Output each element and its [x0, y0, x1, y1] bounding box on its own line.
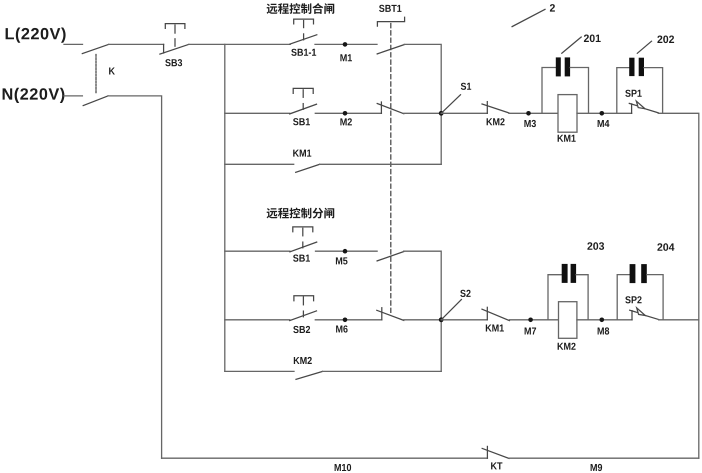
- node M8 junction dot: [600, 318, 605, 323]
- pushbutton SB3 terminal tick: [163, 44, 165, 53]
- label 204: [657, 243, 674, 251]
- contact KT label: [491, 462, 502, 469]
- pushbutton SB1 blade (row2): [290, 104, 317, 114]
- figure number 2 leader line: [512, 9, 545, 26]
- contact KM2 label: [487, 118, 505, 125]
- pressure switch SP2 label: [625, 296, 641, 303]
- pressure switch SP2 terminal tick: [631, 311, 633, 320]
- figure number 2 label: [550, 4, 555, 12]
- pushbutton SB3 actuator dashes: [174, 25, 176, 33]
- contact KM1 NC tick (row5): [486, 307, 488, 320]
- switch K pole 2 blade: [83, 96, 108, 106]
- node M6 label: [336, 325, 348, 332]
- pushbutton SB1 label (row2): [293, 118, 310, 125]
- pressure switch SP2 blade: [645, 316, 658, 320]
- capacitor 203 plates: [562, 264, 576, 283]
- node S1 leader line: [441, 95, 460, 114]
- test button SBT1 contact row2 tick: [380, 102, 382, 113]
- test button SBT1 mechanical dashed line: [390, 24, 392, 314]
- pushbutton SB2 blade: [290, 311, 317, 321]
- pushbutton SB1 blade (row4): [290, 242, 317, 252]
- pressure switch SP1 cross bar: [629, 103, 637, 105]
- node M2 label: [340, 118, 352, 125]
- wire bottom rail left: [162, 457, 488, 459]
- pressure switch SP1 label: [625, 90, 641, 97]
- coil KM1 label: [558, 135, 576, 142]
- contact KM2 NO blade (row6): [296, 371, 323, 379]
- pushbutton SB3 blade: [160, 44, 189, 54]
- capacitor 201 branch left riser: [542, 68, 556, 114]
- node M1 junction dot: [343, 42, 348, 47]
- test button SBT1 label: [379, 5, 401, 12]
- wire N stub: [64, 95, 82, 97]
- wire row2 junction to KM2 contact: [441, 112, 487, 114]
- contact KM2 label (row6): [294, 357, 312, 364]
- wire row5 SP2 to right bus: [659, 319, 699, 321]
- wire row5 KM1 to coil branch: [510, 319, 559, 321]
- node M7 label: [525, 328, 537, 335]
- wire row1 to right bus corner: [404, 44, 441, 164]
- wire row5 SB2 to SBT1 NC contact: [315, 319, 382, 321]
- title text 远程控制合闸 (remote close): [267, 3, 335, 14]
- wire N row to bottom-left drop: [108, 96, 162, 458]
- node M9 label: [591, 464, 603, 471]
- test button SBT1 contact row5 blade: [377, 310, 404, 320]
- pressure switch SP2 wire stub: [617, 319, 632, 321]
- wire row4 SB1 to SBT1 contact: [316, 250, 378, 252]
- capacitor 202 plates: [629, 58, 644, 76]
- switch K pole 1 blade: [82, 44, 108, 53]
- pushbutton SB2 actuator dashes: [302, 297, 304, 305]
- label 202 leader line: [637, 41, 651, 53]
- contact KM2 NC blade: [482, 104, 509, 113]
- capacitor 204 branch right riser: [647, 275, 663, 320]
- wire row5 to S2 junction: [404, 319, 441, 321]
- pushbutton SB1-1 label: [291, 49, 316, 56]
- node M1 label: [340, 54, 352, 61]
- node N(220V) label: [3, 88, 65, 103]
- node S2 leader line: [441, 300, 461, 320]
- wire row6 bus to KM2 contact: [225, 370, 294, 372]
- node M7 junction dot: [528, 318, 533, 323]
- node M3 junction dot: [526, 111, 531, 116]
- capacitor 201 branch right riser: [570, 68, 588, 114]
- contact KM1 NC blade (row5): [482, 309, 510, 320]
- capacitor 202 branch right riser: [644, 68, 663, 114]
- wire row2 to S1 junction: [404, 112, 441, 114]
- wire bottom rail right: [509, 457, 699, 459]
- test button SBT1 actuator bracket: [377, 17, 404, 26]
- contact KM1 label (row5): [486, 325, 504, 332]
- node M4 junction dot: [600, 111, 605, 116]
- wire L stub: [64, 43, 83, 45]
- bus left vertical: [224, 44, 226, 371]
- wire row5 bus to SB2: [225, 319, 290, 321]
- pushbutton SB1-1 actuator bracket: [294, 19, 314, 24]
- wire row2 KM2 to coil branch: [509, 112, 558, 114]
- switch K label: [109, 68, 115, 75]
- pushbutton SB1-1 actuator dashes: [303, 21, 305, 28]
- pushbutton SB3 label: [165, 59, 182, 66]
- wire row6 to right bus: [323, 370, 442, 372]
- wire row2 coil to SP1 branch: [577, 112, 617, 114]
- contact KM2 NC tick: [486, 102, 488, 114]
- test button SBT1 contact row5 tick: [381, 308, 383, 320]
- node M10 label: [335, 464, 352, 471]
- label 203: [587, 242, 604, 250]
- contact KT NC blade: [482, 448, 509, 458]
- pushbutton SB1 label (row4): [293, 255, 310, 262]
- wire row2 SB1 to SBT1 NC contact: [315, 112, 381, 114]
- pushbutton SB1 actuator bracket (row4): [293, 227, 313, 232]
- node S1 junction dot: [439, 111, 444, 116]
- wire row4 bus to SB1: [225, 250, 290, 252]
- capacitor 202 branch left riser: [617, 68, 629, 114]
- pushbutton SB1 actuator dashes (row4): [302, 228, 304, 236]
- node S2 label: [460, 290, 470, 297]
- test button SBT1 contact row1 blade: [377, 45, 404, 54]
- wire row5 junction to KM1 contact: [441, 319, 487, 321]
- capacitor 203 branch right riser: [576, 275, 588, 320]
- coil KM2 rectangle: [559, 302, 577, 339]
- pressure switch SP1 arrow triangle: [636, 101, 645, 109]
- node L(220V) label: [6, 28, 66, 43]
- coil KM1 rectangle: [558, 95, 577, 133]
- capacitor 204 branch left riser: [617, 275, 629, 320]
- wire row5 coil to SP2 branch: [577, 319, 617, 321]
- wire row1 SB3 to SB1-1: [189, 43, 290, 45]
- node M3 label: [524, 120, 536, 127]
- pressure switch SP1 wire stub: [617, 112, 632, 114]
- wire row1 K to SB3: [109, 43, 164, 45]
- pressure switch SP1 terminal tick: [631, 104, 633, 113]
- pushbutton SB2 actuator bracket: [294, 296, 314, 301]
- test button SBT1 contact row2 blade: [377, 104, 404, 114]
- node S2 junction dot: [439, 317, 444, 322]
- wire row1 SB1-1 to SBT1 contact: [315, 43, 377, 45]
- wire row2 SP1 to right bus drop: [658, 113, 699, 458]
- node M5 label: [336, 257, 348, 264]
- title text 远程控制分闸 (remote open): [267, 208, 335, 219]
- node M6 junction dot: [343, 318, 348, 323]
- contact KM1 NO blade (row3): [296, 164, 320, 172]
- capacitor 203 branch left riser: [548, 275, 562, 320]
- label 201 leader line: [562, 37, 581, 53]
- node M4 label: [598, 120, 610, 127]
- wire row4 to right bus corner: [404, 251, 442, 371]
- pressure switch SP2 cross bar: [630, 310, 638, 312]
- label 201: [584, 35, 601, 43]
- test button SBT1 contact row4 blade: [377, 252, 404, 261]
- node M2 junction dot: [343, 111, 348, 116]
- capacitor 204 plates: [630, 264, 647, 283]
- pushbutton SB2 label: [293, 326, 310, 333]
- pushbutton SB1 actuator dashes (row2): [302, 90, 304, 98]
- pressure switch SP2 arrow triangle: [637, 308, 646, 316]
- pressure switch SP1 blade: [645, 109, 658, 113]
- pushbutton SB1-1 blade: [290, 35, 317, 44]
- pushbutton SB1 actuator bracket (row2): [293, 88, 313, 93]
- capacitor 201 plates: [556, 57, 570, 76]
- node M5 junction dot: [343, 249, 348, 254]
- node M8 label: [598, 327, 610, 334]
- switch K mechanical dashed link: [95, 55, 97, 94]
- wire row3 bus to KM1 contact: [225, 163, 294, 165]
- coil KM2 label: [558, 343, 576, 350]
- node S1 label: [461, 83, 471, 90]
- label 202: [657, 36, 674, 44]
- wire row3 to right bus: [320, 163, 442, 165]
- pushbutton SB3 actuator bracket: [165, 24, 185, 29]
- contact KT NC tick: [486, 446, 488, 458]
- contact KM1 label (row3): [293, 150, 311, 157]
- wire row2 bus to SB1: [225, 112, 290, 114]
